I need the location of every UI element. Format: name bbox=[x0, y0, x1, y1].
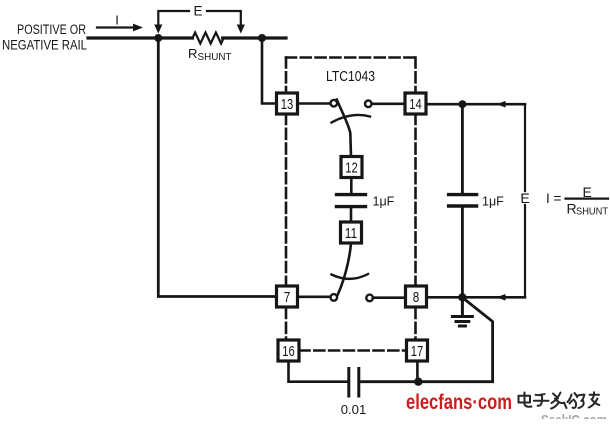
wire pin17 down to node E bbox=[416, 362, 419, 382]
switch S2 contact circle left bbox=[331, 294, 338, 301]
capacitor C1 1uF bbox=[337, 195, 366, 207]
svg-text:E: E bbox=[520, 190, 529, 206]
wire pin8 to node D and E-line bbox=[428, 296, 526, 299]
switch S2 travel arc bbox=[332, 274, 369, 279]
label RSHUNT bbox=[188, 46, 232, 63]
voltage bracket E over resistor bbox=[154, 4, 245, 34]
arrowhead on E measure top bbox=[497, 101, 506, 108]
switch S2 arm bbox=[335, 243, 351, 300]
wire capacitor C2 to node D bbox=[461, 208, 464, 297]
switch S1 arm bbox=[337, 100, 351, 156]
svg-text:I: I bbox=[115, 13, 119, 28]
svg-text:E: E bbox=[193, 4, 202, 19]
capacitor C3 0.01 bbox=[349, 369, 359, 397]
arrowhead on E measure bottom bbox=[497, 294, 506, 301]
pin 17 bbox=[407, 340, 428, 361]
svg-text:elecfans·com: elecfans·com bbox=[406, 391, 512, 414]
wire node C down to capacitor C2 bbox=[461, 104, 464, 193]
wire node B to pin 13 bbox=[262, 38, 276, 104]
node E junction bbox=[414, 378, 422, 386]
switch S2 contact circle right bbox=[366, 295, 373, 302]
wire diagonal from ground node to bottom right bbox=[360, 300, 493, 382]
wire pin13 to switch contact bbox=[298, 102, 331, 105]
pin 7 bbox=[277, 286, 298, 307]
IC U1 LTC1043 dashed outline bbox=[286, 58, 416, 351]
svg-text:8: 8 bbox=[413, 289, 420, 306]
svg-text:13: 13 bbox=[281, 96, 294, 113]
pin 13 bbox=[277, 93, 298, 114]
svg-text:17: 17 bbox=[411, 343, 424, 360]
svg-text:SHUNT: SHUNT bbox=[198, 51, 233, 63]
watermark chinese 电子发烧友 bbox=[519, 392, 600, 408]
formula I = E / RSHUNT bbox=[546, 184, 609, 218]
svg-text:12: 12 bbox=[345, 159, 358, 176]
pin 8 bbox=[406, 286, 427, 307]
svg-text:R: R bbox=[188, 46, 197, 61]
wire capacitor C1 to pin 11 bbox=[350, 209, 353, 223]
wire left rail to pin 7 bbox=[158, 38, 276, 297]
wire top rail right of resistor bbox=[223, 36, 286, 39]
svg-text:0.01: 0.01 bbox=[341, 402, 367, 417]
svg-text:I =: I = bbox=[546, 191, 562, 206]
svg-text:1μF: 1μF bbox=[482, 195, 504, 209]
wire pin14 to node C and E-line bbox=[427, 103, 526, 106]
node A junction bbox=[154, 34, 162, 42]
capacitor C2 1uF bbox=[449, 195, 477, 206]
switch S1 contact circle left bbox=[331, 100, 338, 107]
svg-text:LTC1043: LTC1043 bbox=[326, 68, 375, 85]
current arrow I bbox=[97, 13, 143, 32]
svg-text:16: 16 bbox=[282, 343, 295, 360]
svg-text:11: 11 bbox=[345, 225, 358, 242]
label POSITIVE OR NEGATIVE RAIL bbox=[2, 22, 87, 53]
svg-text:1μF: 1μF bbox=[373, 195, 395, 209]
svg-text:POSITIVE OR: POSITIVE OR bbox=[17, 22, 86, 37]
wire top rail bbox=[88, 36, 193, 39]
svg-text:NEGATIVE RAIL: NEGATIVE RAIL bbox=[2, 38, 87, 53]
node D junction bbox=[458, 293, 466, 301]
node C junction bbox=[458, 100, 466, 108]
svg-text:SHUNT: SHUNT bbox=[576, 206, 609, 218]
wire pin7 to switch contact bbox=[298, 295, 331, 298]
switch S1 travel arc bbox=[332, 115, 371, 123]
switch S1 contact circle right bbox=[365, 101, 372, 108]
svg-text:SeekIC.com: SeekIC.com bbox=[541, 412, 607, 419]
E measure vertical line bbox=[524, 104, 526, 191]
wire pin12 to capacitor C1 bbox=[350, 178, 353, 193]
pin 12 bbox=[341, 157, 362, 178]
node B junction bbox=[258, 34, 266, 42]
wire contact to pin14 bbox=[372, 103, 405, 106]
pin 11 bbox=[341, 222, 362, 243]
svg-text:7: 7 bbox=[284, 289, 291, 306]
wire contact to pin 8 bbox=[373, 296, 405, 299]
ground bbox=[452, 297, 472, 326]
svg-text:14: 14 bbox=[409, 96, 422, 113]
pin 16 bbox=[278, 340, 299, 361]
wire pin16 down and bottom left segment bbox=[289, 362, 349, 382]
pin 14 bbox=[405, 93, 426, 114]
resistor RSHUNT bbox=[193, 33, 224, 44]
